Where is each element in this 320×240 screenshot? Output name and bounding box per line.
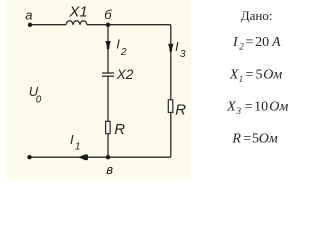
svg-text:Ом: Ом [263, 67, 282, 82]
svg-text:10: 10 [254, 100, 268, 115]
svg-text:X: X [226, 100, 236, 115]
svg-text:R: R [175, 102, 186, 119]
svg-text:5: 5 [256, 67, 263, 82]
svg-text:=: = [245, 100, 253, 115]
svg-text:в: в [106, 162, 113, 177]
svg-text:3: 3 [236, 106, 242, 116]
svg-text:Дано:: Дано: [241, 8, 273, 23]
svg-text:Ом: Ом [269, 100, 288, 115]
svg-text:=: = [246, 67, 254, 82]
svg-text:0: 0 [36, 95, 42, 106]
svg-text:I: I [70, 132, 74, 147]
svg-text:1: 1 [239, 74, 244, 84]
svg-text:=: = [246, 35, 254, 50]
svg-text:20: 20 [255, 35, 269, 50]
svg-text:=: = [243, 131, 251, 146]
svg-text:X1: X1 [68, 4, 87, 21]
svg-text:А: А [271, 35, 281, 50]
svg-text:1: 1 [75, 142, 81, 153]
svg-text:2: 2 [239, 42, 244, 52]
svg-text:б: б [104, 7, 112, 22]
svg-text:2: 2 [120, 47, 127, 58]
svg-text:R: R [231, 131, 241, 146]
svg-text:a: a [25, 8, 32, 23]
svg-text:I: I [175, 39, 179, 54]
svg-text:X2: X2 [116, 67, 134, 82]
svg-text:X: X [229, 67, 239, 82]
svg-text:R: R [114, 121, 125, 138]
svg-text:I: I [116, 37, 120, 52]
svg-text:Ом: Ом [259, 131, 278, 146]
svg-text:3: 3 [180, 49, 186, 60]
